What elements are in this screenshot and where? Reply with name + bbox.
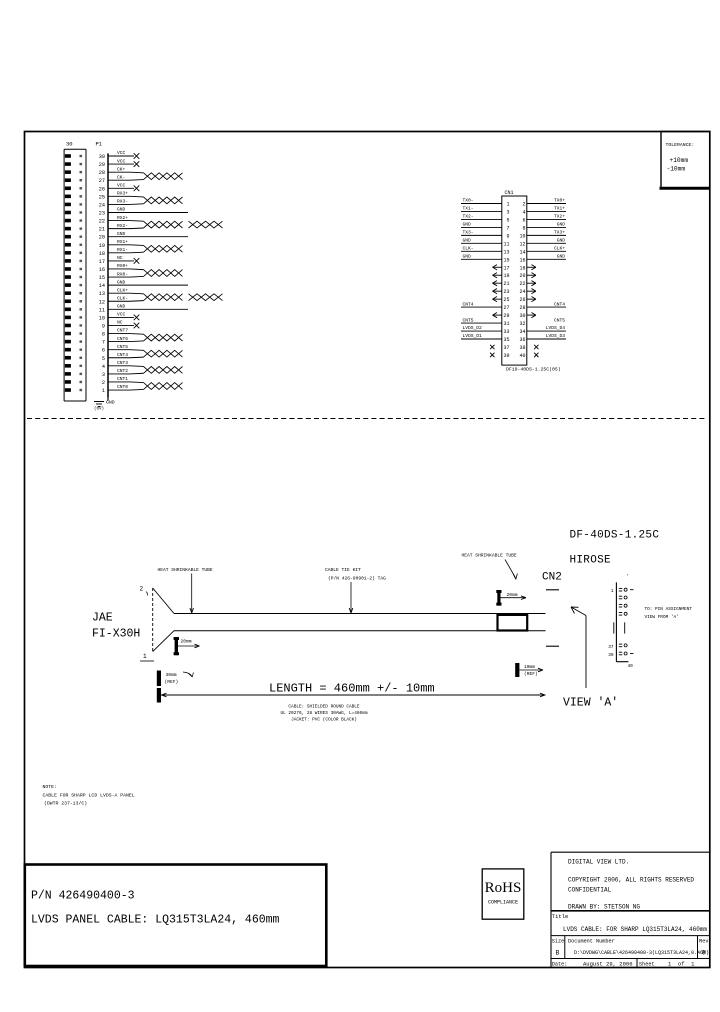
svg-text:9: 9 [102, 323, 105, 329]
svg-text:GND: GND [106, 400, 115, 406]
svg-text:22: 22 [99, 219, 105, 225]
svg-text:16: 16 [519, 257, 525, 263]
svg-text:30: 30 [99, 154, 105, 160]
stub arrow CN1 pin 24 [527, 289, 536, 294]
wire CN1 pin 11 (GND) [461, 238, 502, 244]
wire CN1 pin 7 (GND) [461, 222, 502, 228]
tolerance box [660, 132, 710, 189]
svg-text:19: 19 [503, 273, 509, 279]
svg-text:CNT5: CNT5 [463, 317, 474, 323]
part number box [25, 865, 327, 967]
svg-text:GND: GND [557, 238, 566, 244]
svg-text:15: 15 [503, 257, 509, 263]
svg-text:CNT6: CNT6 [117, 336, 128, 342]
svg-text:P1: P1 [96, 141, 103, 148]
svg-text:UL 20276, 28 WIRES 30AWG, L=46: UL 20276, 28 WIRES 30AWG, L=460mm [281, 711, 368, 716]
svg-text:1: 1 [506, 202, 509, 208]
svg-text:CN1: CN1 [505, 190, 514, 196]
svg-text:CNT0: CNT0 [117, 384, 128, 390]
wire CN1 pin 16 (GND) [527, 253, 566, 259]
svg-text:22: 22 [519, 281, 525, 287]
svg-text:GND: GND [117, 304, 126, 310]
twisted pair CK+/CK- pins 28/27 [108, 166, 183, 180]
svg-text:39: 39 [608, 653, 614, 658]
connector P1 body (JAE FI-X30H 30-pin) [64, 149, 86, 401]
cable body [174, 614, 546, 631]
svg-text:': ' [627, 575, 630, 580]
svg-text:15: 15 [99, 275, 105, 281]
svg-text:GND: GND [463, 222, 472, 228]
svg-text:10: 10 [519, 233, 525, 239]
label LENGTH = 460mm +/- 10mm [269, 682, 435, 696]
callout cable tie kit [325, 567, 386, 613]
twisted pair CNT7/CNT6 pins 8/7 [108, 328, 183, 342]
svg-text:18: 18 [519, 265, 525, 271]
connector CN2 end ticks [546, 590, 559, 646]
svg-text:(REF): (REF) [165, 679, 179, 685]
svg-text:GND: GND [117, 279, 126, 285]
stub arrow CN1 pin 23 [493, 289, 502, 294]
label P1 (reference designator) [96, 141, 103, 148]
svg-text:COMPLIANCE: COMPLIANCE [488, 900, 518, 906]
svg-text:32: 32 [519, 321, 525, 327]
svg-text:HEAT SHRINKABLE TUBE: HEAT SHRINKABLE TUBE [158, 567, 213, 573]
twisted pair RX2+/RX2- pins 22/21 [108, 215, 223, 229]
svg-text:37: 37 [608, 645, 614, 650]
svg-text:30: 30 [66, 141, 73, 148]
svg-text:FI-X30H: FI-X30H [92, 628, 140, 641]
wire pin 11 (GND) [108, 304, 188, 310]
stub arrow CN1 pin 30 [527, 312, 536, 317]
stub arrow CN1 pin 29 [493, 312, 502, 317]
svg-text:17: 17 [503, 265, 509, 271]
wire pin 10 (VCC) no-connect [108, 312, 139, 321]
wire pin 26 (VCC) no-connect [108, 182, 139, 191]
svg-text:0: 0 [702, 950, 706, 957]
svg-text:TX3+: TX3+ [554, 230, 565, 236]
svg-text:JAE: JAE [92, 612, 113, 625]
svg-text:2: 2 [140, 586, 144, 593]
wire pin 23 (GND) [108, 207, 188, 213]
view A sight arrow [571, 607, 586, 688]
svg-text:TOLERANCE:: TOLERANCE: [666, 142, 695, 148]
svg-text:VCC: VCC [117, 182, 126, 188]
dimension 20mm (left) [174, 637, 200, 655]
svg-text:CNT1: CNT1 [117, 376, 128, 382]
svg-text:8: 8 [522, 225, 525, 231]
svg-text:2: 2 [102, 380, 105, 386]
svg-text:5: 5 [102, 356, 105, 362]
svg-text:LVDS CABLE: FOR SHARP LQ315T3L: LVDS CABLE: FOR SHARP LQ315T3LA24, 460mm [563, 926, 707, 933]
svg-text:20: 20 [99, 235, 105, 241]
svg-text:24: 24 [99, 202, 105, 208]
wire CN1 pin 14 (CLK+) [527, 246, 566, 252]
svg-text:Title: Title [552, 913, 569, 920]
wire CN1 pin 35 (LVDS_D1) [461, 333, 502, 339]
svg-text:20mm: 20mm [181, 639, 192, 645]
svg-text:RX1+: RX1+ [117, 239, 128, 245]
svg-text:31: 31 [503, 321, 509, 327]
wire CN1 pin 2 (TX0+) [527, 198, 566, 204]
svg-text:1: 1 [143, 653, 147, 660]
svg-text:34: 34 [519, 329, 525, 335]
wire CN1 pin 15 (GND) [461, 253, 502, 259]
CN1 pin numbers [503, 202, 525, 359]
svg-text:27: 27 [99, 178, 105, 184]
confidential line [568, 887, 612, 894]
ground symbol (P1 shell) [94, 398, 115, 412]
stub arrow CN1 pin 25 [493, 297, 502, 302]
svg-text:(DWTR 237-13/C): (DWTR 237-13/C) [44, 801, 87, 807]
wire CN1 pin 28 (CNT4) [527, 301, 566, 307]
stub arrow CN1 pin 19 [493, 273, 502, 278]
svg-text:Sheet: Sheet [639, 962, 655, 968]
dashed separator line [27, 418, 707, 420]
svg-text:TO: PIN ASSIGNMENT: TO: PIN ASSIGNMENT [645, 607, 693, 612]
RoHS compliance box [482, 869, 524, 919]
svg-text:5: 5 [506, 217, 509, 223]
svg-text:16: 16 [99, 267, 105, 273]
svg-text:August 29, 2006: August 29, 2006 [583, 961, 633, 968]
twisted pair CNT1/CNT0 pins 2/1 [108, 376, 183, 390]
no-connect CN1 pin 40 [534, 353, 538, 357]
svg-text:GND: GND [117, 207, 126, 213]
wire pin 17 (NC) no-connect [108, 255, 139, 264]
callout heat shrinkable tube (left) [158, 567, 213, 613]
svg-text:24: 24 [519, 289, 525, 295]
svg-text:10mm: 10mm [524, 664, 535, 670]
svg-text:10: 10 [99, 315, 105, 321]
label LVDS PANEL CABLE [31, 914, 280, 927]
svg-text:17: 17 [99, 259, 105, 265]
svg-text:23: 23 [503, 289, 509, 295]
svg-text:25: 25 [99, 194, 105, 200]
svg-text:28: 28 [519, 305, 525, 311]
svg-text:COPYRIGHT 2006, ALL RIGHTS RES: COPYRIGHT 2006, ALL RIGHTS RESERVED [568, 877, 694, 884]
label CN2 [542, 572, 562, 584]
svg-text:VCC: VCC [117, 150, 126, 156]
copyright line [568, 877, 694, 884]
svg-text:JACKET: PVC (COLOR BLACK): JACKET: PVC (COLOR BLACK) [291, 718, 357, 723]
svg-text:CNT7: CNT7 [117, 328, 128, 334]
svg-text:21: 21 [99, 227, 105, 233]
note text [43, 784, 135, 807]
label DF-40DS-1.25C [570, 530, 660, 542]
svg-text:40: 40 [628, 664, 634, 669]
svg-text:3: 3 [506, 209, 509, 215]
svg-text:CNT4: CNT4 [554, 301, 565, 307]
svg-text:TX1-: TX1- [463, 206, 474, 212]
wire CN1 pin 12 (GND) [527, 238, 566, 244]
stub arrow CN1 pin 20 [527, 273, 536, 278]
wire CN1 pin 34 (LVDS_D4) [527, 325, 566, 331]
svg-text:LVDS_D4: LVDS_D4 [546, 325, 566, 331]
wire CN1 pin 1 (TX0-) [461, 198, 502, 204]
P1 pin numbers column [99, 154, 105, 394]
svg-text:1 of 1: 1 of 1 [668, 961, 695, 968]
svg-text:VIEW 'A': VIEW 'A' [563, 697, 618, 710]
svg-text:4: 4 [522, 209, 525, 215]
svg-text:TX0+: TX0+ [554, 198, 565, 204]
svg-text:40: 40 [519, 353, 525, 359]
no-connect CN1 pin 37 [490, 345, 494, 349]
stub arrow CN1 pin 22 [527, 281, 536, 286]
svg-text:LVDS PANEL CABLE: LQ315T3LA24,: LVDS PANEL CABLE: LQ315T3LA24, 460mm [31, 914, 280, 927]
svg-text:+10mm: +10mm [670, 157, 689, 164]
svg-text:14: 14 [519, 249, 525, 255]
twisted pair CLK+/CLK- pins 13/12 [108, 287, 223, 301]
wire pin 30 (VCC) no-connect [108, 150, 139, 159]
svg-text:6: 6 [522, 217, 525, 223]
label CN1 [505, 190, 514, 196]
svg-text:LVDS_D1: LVDS_D1 [463, 333, 483, 339]
wire CN1 pin 10 (TX3+) [527, 230, 566, 236]
wire CN1 pin 5 (TX2-) [461, 214, 502, 220]
svg-text:GND: GND [463, 238, 472, 244]
twisted pair CNT3/CNT2 pins 4/3 [108, 360, 183, 374]
svg-text:33: 33 [503, 329, 509, 335]
svg-text:18: 18 [99, 251, 105, 257]
svg-text:VCC: VCC [117, 312, 126, 318]
svg-text:36: 36 [519, 337, 525, 343]
twisted pair RX3+/RX3- pins 25/24 [108, 191, 183, 205]
CN1 part number label [506, 367, 561, 373]
P1 pin contact marks [65, 154, 82, 392]
svg-text:8: 8 [102, 332, 105, 338]
stub arrow CN1 pin 26 [527, 297, 536, 302]
svg-text:DRAWN BY: STETSON NG: DRAWN BY: STETSON NG [568, 904, 640, 911]
svg-text:GND: GND [463, 253, 472, 259]
view A note [645, 607, 693, 620]
svg-text:11: 11 [503, 241, 509, 247]
drawn by line [568, 904, 640, 911]
svg-text:CNT3: CNT3 [117, 360, 128, 366]
svg-text:TX2-: TX2- [463, 214, 474, 220]
svg-text:RX0-: RX0- [117, 271, 128, 277]
twisted pair CNT5/CNT4 pins 6/5 [108, 344, 183, 358]
svg-text:CK+: CK+ [117, 166, 126, 172]
svg-text:7: 7 [102, 340, 105, 346]
svg-text:12: 12 [99, 299, 105, 305]
svg-text:TX0-: TX0- [463, 198, 474, 204]
title block [551, 852, 710, 967]
P1 bus line [107, 153, 109, 397]
svg-text:RX2-: RX2- [117, 223, 128, 229]
svg-text:30: 30 [519, 313, 525, 319]
svg-text:TX3-: TX3- [463, 230, 474, 236]
wire CN1 pin 6 (TX2+) [527, 214, 566, 220]
label JAE [92, 612, 113, 625]
svg-text:TX1+: TX1+ [554, 206, 565, 212]
svg-text:P/N 426490400-3: P/N 426490400-3 [31, 890, 135, 903]
label 30 (pin count) [66, 141, 73, 148]
svg-text:GND: GND [557, 222, 566, 228]
svg-text:RX3-: RX3- [117, 199, 128, 205]
svg-text:DIGITAL VIEW LTD.: DIGITAL VIEW LTD. [568, 859, 629, 866]
dimension 30mm REF (left) [157, 671, 194, 687]
stub arrow CN1 pin 17 [493, 265, 502, 270]
svg-text:DF19-40DS-1.25C(05): DF19-40DS-1.25C(05) [506, 367, 561, 373]
wire CN1 pin 4 (TX1+) [527, 206, 566, 212]
svg-text:RX2+: RX2+ [117, 215, 128, 221]
svg-text:13: 13 [99, 291, 105, 297]
svg-text:20mm: 20mm [507, 592, 518, 598]
svg-text:DF-40DS-1.25C: DF-40DS-1.25C [570, 530, 660, 542]
company name DIGITAL VIEW LTD. [568, 859, 629, 866]
dimension 10mm REF (right) [515, 663, 543, 677]
svg-text:11: 11 [99, 307, 105, 313]
svg-text:25: 25 [503, 297, 509, 303]
svg-text:27: 27 [503, 305, 509, 311]
svg-text:NC: NC [117, 255, 123, 261]
svg-text:HIROSE: HIROSE [570, 555, 612, 567]
wire CN1 pin 13 (CLK-) [461, 246, 502, 252]
svg-text:NOTE:: NOTE: [43, 784, 57, 790]
svg-text:35: 35 [503, 337, 509, 343]
cable spec note [281, 705, 368, 723]
wire CN1 pin 9 (TX3-) [461, 230, 502, 236]
svg-text:CLK-: CLK- [463, 246, 474, 252]
svg-text:CNT4: CNT4 [117, 352, 128, 358]
svg-text:21: 21 [503, 281, 509, 287]
svg-text:26: 26 [519, 297, 525, 303]
wire CN1 pin 33 (LVDS_D2) [461, 325, 502, 331]
svg-text:3: 3 [102, 372, 105, 378]
no-connect CN1 pin 39 [490, 353, 494, 357]
svg-text:29: 29 [503, 313, 509, 319]
connector CN1 body (Hirose 40-pin) [502, 196, 527, 365]
wire CN1 pin 8 (GND) [527, 222, 566, 228]
svg-text:39: 39 [503, 353, 509, 359]
wire CN1 pin 36 (LVDS_D3) [527, 333, 566, 339]
wire pin 9 (NC) no-connect [108, 320, 139, 329]
label VIEW 'A' [563, 697, 618, 710]
svg-text:28: 28 [99, 170, 105, 176]
svg-text:TX2+: TX2+ [554, 214, 565, 220]
svg-text:CN2: CN2 [542, 572, 562, 584]
stub arrow CN1 pin 18 [527, 265, 536, 270]
svg-text:GND: GND [117, 231, 126, 237]
svg-text:CLK+: CLK+ [554, 246, 565, 252]
svg-text:CLK-: CLK- [117, 295, 128, 301]
svg-text:7: 7 [506, 225, 509, 231]
svg-text:Size: Size [552, 939, 564, 945]
svg-text:RX0+: RX0+ [117, 263, 128, 269]
length dimension line [157, 688, 546, 703]
svg-text:D:\DVDWG\CABLE\426490400-3(LQ3: D:\DVDWG\CABLE\426490400-3(LQ315T3LA24,0… [574, 950, 709, 956]
wire pin 29 (VCC) no-connect [108, 158, 139, 167]
heat shrinkable tube (sleeve rectangle) [498, 615, 528, 631]
label FI-X30H [92, 628, 140, 641]
svg-text:VCC: VCC [117, 158, 126, 164]
label CN1 pin 32 (CNT5) [554, 317, 565, 323]
svg-text:CONFIDENTIAL: CONFIDENTIAL [568, 887, 612, 894]
drawing border frame [25, 132, 710, 968]
svg-text:(P/N 426-90901-2) TAG: (P/N 426-90901-2) TAG [328, 575, 386, 581]
wire pin 14 (GND) [108, 279, 188, 285]
svg-text:GND: GND [557, 253, 566, 259]
svg-text:26: 26 [99, 186, 105, 192]
label P/N 426490400-3 [31, 890, 135, 903]
svg-text:37: 37 [503, 345, 509, 351]
svg-text:RoHS: RoHS [485, 880, 522, 896]
svg-text:2: 2 [522, 202, 525, 208]
svg-text:CNT4: CNT4 [463, 301, 474, 307]
svg-text:CK-: CK- [117, 174, 125, 180]
svg-text:CABLE: SHIELDED ROUND CABLE: CABLE: SHIELDED ROUND CABLE [288, 705, 360, 710]
svg-text:HEAT SHRINKABLE TUBE: HEAT SHRINKABLE TUBE [462, 553, 517, 559]
svg-text:LVDS_D3: LVDS_D3 [546, 333, 566, 339]
svg-text:(REF): (REF) [524, 671, 538, 677]
svg-text:CNT5: CNT5 [117, 344, 128, 350]
svg-text:29: 29 [99, 162, 105, 168]
date and sheet cells [552, 961, 695, 968]
svg-text:CABLE TIE KIT: CABLE TIE KIT [325, 567, 361, 573]
wire pin 20 (GND) [108, 231, 188, 237]
svg-text:RX1-: RX1- [117, 247, 128, 253]
svg-text:Date:: Date: [552, 962, 568, 968]
svg-text:VIEW FROM 'A': VIEW FROM 'A' [645, 615, 679, 620]
svg-text:Rev: Rev [699, 939, 708, 945]
wire CN1 pin 31 (CNT5) [461, 317, 502, 323]
svg-text:12: 12 [519, 241, 525, 247]
wire CN1 pin 3 (TX1-) [461, 206, 502, 212]
dimension 20mm (right) [496, 590, 526, 606]
svg-text:-10mm: -10mm [667, 166, 686, 173]
size and document number cells [552, 939, 709, 957]
svg-text:CNT5: CNT5 [554, 317, 565, 323]
svg-text:(0V): (0V) [94, 407, 104, 412]
wire CN1 pin 27 (CNT4) [461, 301, 502, 307]
callout heat shrinkable tube (right) [462, 553, 518, 580]
svg-text:9: 9 [506, 233, 509, 239]
svg-text:RX3+: RX3+ [117, 191, 128, 197]
twisted pair RX1+/RX1- pins 19/18 [108, 239, 183, 253]
svg-text:B: B [556, 950, 560, 957]
view A connector detail [608, 575, 633, 670]
svg-text:6: 6 [102, 348, 105, 354]
svg-text:13: 13 [503, 249, 509, 255]
svg-text:20: 20 [519, 273, 525, 279]
no-connect CN1 pin 38 [534, 345, 538, 349]
svg-text:CLK+: CLK+ [117, 287, 128, 293]
svg-text:LVDS_D2: LVDS_D2 [463, 325, 483, 331]
svg-text:30mm: 30mm [166, 672, 177, 678]
twisted pair RX0+/RX0- pins 16/15 [108, 263, 183, 277]
svg-text:19: 19 [99, 243, 105, 249]
stub arrow CN1 pin 21 [493, 281, 502, 286]
svg-text:Document Number: Document Number [568, 939, 615, 945]
svg-text:CNT2: CNT2 [117, 368, 128, 374]
label HIROSE [570, 555, 612, 567]
svg-text:LENGTH = 460mm +/- 10mm: LENGTH = 460mm +/- 10mm [269, 682, 435, 696]
svg-text:CABLE FOR SHARP LCD LVDS-A PAN: CABLE FOR SHARP LCD LVDS-A PANEL [43, 793, 135, 799]
svg-text:1: 1 [611, 589, 614, 594]
title cell [552, 913, 708, 933]
svg-text:38: 38 [519, 345, 525, 351]
svg-text:4: 4 [102, 364, 105, 370]
connector P1 outline (cable drawing) [140, 586, 175, 662]
svg-text:NC: NC [117, 320, 123, 326]
svg-text:1: 1 [102, 388, 105, 394]
svg-text:14: 14 [99, 283, 105, 289]
svg-text:23: 23 [99, 210, 105, 216]
